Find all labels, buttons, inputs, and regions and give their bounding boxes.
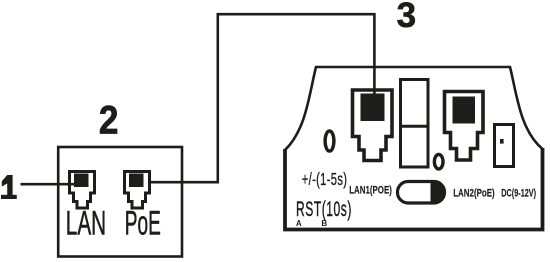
label DC(9-12V)	[501, 187, 536, 200]
label +/-(1-5s)	[302, 171, 348, 190]
PoE port jack icon	[125, 172, 150, 209]
LAN port jack icon	[70, 172, 95, 209]
wire: from label 1 to LAN port	[21, 183, 75, 186]
label RST(10s)	[296, 196, 352, 221]
screw hole 0 (right)	[434, 154, 443, 169]
label A	[296, 219, 302, 228]
svg-text:LAN2(PoE): LAN2(PoE)	[453, 187, 494, 200]
device 3: camera rear panel outline	[285, 67, 543, 230]
label 1 (footed numeral)	[1, 175, 17, 199]
screw hole 0 (left)	[325, 131, 334, 151]
svg-text:PoE: PoE	[125, 204, 161, 242]
svg-text:RST(10s): RST(10s)	[296, 196, 352, 221]
svg-text:B: B	[321, 219, 327, 228]
svg-text:LAN1(POE): LAN1(POE)	[349, 184, 392, 197]
label LAN2(PoE)	[453, 187, 494, 200]
svg-text:2: 2	[99, 97, 119, 142]
svg-text:DC(9-12V): DC(9-12V)	[501, 187, 536, 200]
svg-text:3: 3	[397, 0, 416, 35]
label 2	[99, 97, 119, 142]
label LAN1(POE)	[349, 184, 392, 197]
LAN label	[66, 204, 106, 241]
svg-text:LAN: LAN	[66, 204, 106, 241]
label 3	[397, 0, 416, 35]
PoE label	[125, 204, 161, 242]
slider switch	[398, 181, 446, 204]
label B	[321, 219, 327, 228]
svg-text:+/-(1-5s): +/-(1-5s)	[302, 171, 348, 190]
svg-text:A: A	[296, 219, 302, 228]
DC power jack	[495, 125, 514, 167]
wire: PoE port to LAN1(POE) port	[150, 14, 374, 182]
LAN2(PoE) port jack	[445, 92, 484, 161]
device 2: PoE injector box	[58, 147, 182, 257]
reset channel rectangle	[401, 80, 429, 168]
LAN1(POE) port jack	[353, 90, 393, 161]
